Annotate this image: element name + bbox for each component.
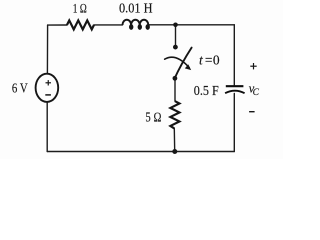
switch S1 top terminal dot bbox=[173, 45, 178, 50]
wire top-left segment bbox=[48, 24, 67, 26]
switch arrowhead bbox=[185, 64, 191, 70]
source minus mark bbox=[45, 94, 51, 96]
voltage source V1 circle bbox=[36, 74, 59, 102]
capacitor C1 curved bottom plate bbox=[225, 91, 245, 94]
resistor R1 1-ohm zigzag bbox=[67, 20, 94, 29]
svg-text:1 Ω: 1 Ω bbox=[73, 0, 87, 15]
resistor R2 5-ohm zigzag (vertical) bbox=[170, 101, 179, 128]
switch closing arc with arrow bbox=[165, 57, 190, 68]
wire 5-ohm resistor to bottom bbox=[173, 128, 175, 151]
source plus mark bbox=[46, 80, 52, 85]
wire left vertical lower bbox=[46, 102, 48, 152]
wire node to switch bbox=[175, 25, 177, 45]
wire from L1 to node and to top-right corner bbox=[149, 24, 235, 26]
svg-text:C: C bbox=[253, 88, 260, 98]
wire right vertical upper bbox=[233, 25, 235, 86]
svg-text:0.5 F: 0.5 F bbox=[194, 83, 219, 98]
node A junction dot on top wire bbox=[173, 23, 178, 28]
switch S1 bottom terminal dot bbox=[173, 76, 178, 81]
wire left vertical upper bbox=[46, 25, 48, 74]
switch blade bbox=[174, 48, 191, 80]
svg-text:5 Ω: 5 Ω bbox=[145, 110, 161, 125]
svg-text:=: = bbox=[205, 53, 213, 68]
bottom junction node dot bbox=[172, 149, 177, 154]
inductor L1 0.01 H coil bbox=[122, 20, 148, 25]
plus sign for vC bbox=[250, 63, 256, 69]
minus sign for vC bbox=[249, 111, 255, 113]
wire switch to 5-ohm resistor bbox=[174, 81, 176, 102]
wire right vertical lower bbox=[233, 94, 235, 152]
svg-text:0.01 H: 0.01 H bbox=[119, 0, 153, 15]
capacitor C1 top plate bbox=[226, 85, 244, 87]
svg-text:0: 0 bbox=[213, 53, 220, 68]
wire between R1 and L1 bbox=[94, 24, 123, 26]
svg-text:6 V: 6 V bbox=[12, 81, 28, 96]
wire bottom bbox=[47, 151, 234, 153]
